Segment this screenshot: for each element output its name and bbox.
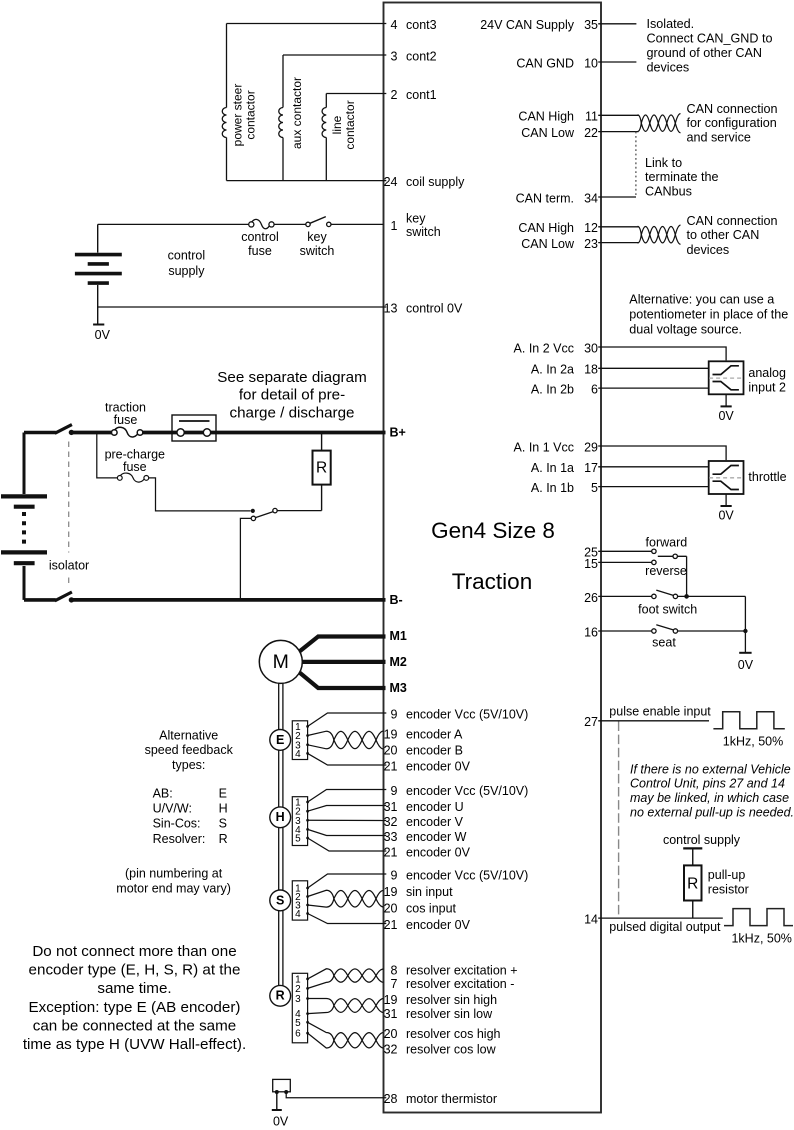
title Gen4 Size 8	[431, 518, 555, 543]
label forward	[646, 535, 688, 549]
svg-text:CAN Low: CAN Low	[521, 237, 575, 251]
svg-text:CAN High: CAN High	[518, 221, 574, 235]
pin 31 label resolver sin low	[384, 1007, 494, 1021]
label B-	[390, 593, 403, 607]
svg-text:resolver excitation -: resolver excitation -	[406, 977, 514, 991]
svg-text:time as type H (UVW Hall-effec: time as type H (UVW Hall-effect).	[23, 1036, 246, 1053]
switch: isolator bottom blade	[24, 592, 74, 603]
wire pin24 coil supply rail	[227, 180, 387, 182]
wire H pin5 to 21	[308, 838, 387, 851]
title Traction	[452, 569, 532, 594]
label reverse	[645, 564, 687, 578]
pin 35 label	[480, 18, 598, 32]
svg-text:charge / discharge: charge / discharge	[230, 404, 355, 421]
svg-text:speed feedback: speed feedback	[145, 743, 234, 757]
svg-text:Resolver:: Resolver:	[153, 832, 206, 846]
svg-text:Sin-Cos:: Sin-Cos:	[153, 817, 201, 831]
switch: key switch	[306, 217, 331, 227]
label pull-up resistor	[708, 868, 749, 897]
pin 19 label sin input	[384, 885, 453, 899]
svg-text:17: 17	[584, 461, 598, 475]
motor M circle	[259, 640, 302, 683]
svg-text:aux contactor: aux contactor	[290, 77, 304, 149]
pin 4 label cont3	[391, 18, 437, 32]
wire pin4 cont3	[227, 23, 387, 25]
svg-text:key: key	[307, 230, 327, 244]
wire pin10 stub	[598, 61, 636, 63]
battery: control supply battery	[75, 224, 122, 324]
svg-text:1kHz, 50%: 1kHz, 50%	[731, 932, 791, 946]
pin 9 label encoder Vcc (5V/10V)	[391, 784, 529, 798]
svg-text:Alternative: you can use a: Alternative: you can use a	[629, 292, 774, 306]
svg-text:cos input: cos input	[406, 901, 457, 915]
svg-text:0V: 0V	[718, 509, 734, 523]
svg-text:B-: B-	[390, 593, 403, 607]
label pre-charge fuse	[105, 448, 165, 474]
svg-text:ground of other CAN: ground of other CAN	[647, 46, 763, 60]
control supply bar	[683, 847, 702, 849]
svg-text:4: 4	[391, 18, 398, 32]
svg-text:Gen4 Size 8: Gen4 Size 8	[431, 518, 555, 543]
svg-text:cont2: cont2	[406, 49, 437, 63]
svg-text:coil supply: coil supply	[406, 175, 465, 189]
pin 22 label	[521, 126, 598, 140]
wire pin3 cont2	[283, 54, 386, 56]
wire pin6	[598, 387, 709, 389]
waveform pulse input	[713, 712, 784, 729]
svg-text:24V CAN Supply: 24V CAN Supply	[480, 18, 575, 32]
svg-text:control supply: control supply	[663, 833, 741, 847]
encoder H circle	[270, 807, 291, 828]
svg-text:control: control	[241, 230, 279, 244]
pin 31 label encoder U	[384, 800, 464, 814]
svg-text:encoder type (E, H, S, R) at t: encoder type (E, H, S, R) at the	[29, 961, 241, 978]
svg-text:resolver sin low: resolver sin low	[406, 1007, 493, 1021]
svg-text:encoder Vcc (5V/10V): encoder Vcc (5V/10V)	[406, 707, 528, 721]
svg-text:14: 14	[584, 913, 598, 927]
svg-text:20: 20	[384, 901, 398, 915]
wire pin16 seat	[598, 630, 652, 632]
svg-text:encoder 0V: encoder 0V	[406, 918, 471, 932]
svg-text:See separate diagram: See separate diagram	[217, 369, 366, 386]
note isolated CAN_GND	[647, 17, 773, 74]
pin 21 label encoder 0V	[384, 918, 471, 932]
wire S pin1 to 9	[308, 874, 387, 888]
svg-text:26: 26	[584, 591, 598, 605]
svg-text:CAN Low: CAN Low	[521, 126, 575, 140]
twisted pair R sin	[308, 999, 384, 1014]
svg-text:15: 15	[584, 557, 598, 571]
svg-text:0V: 0V	[95, 328, 111, 342]
pin 17 label	[531, 461, 598, 475]
svg-text:13: 13	[384, 301, 398, 315]
svg-text:H: H	[219, 802, 228, 816]
pin 21 label encoder 0V	[384, 845, 471, 859]
battery: traction battery	[1, 433, 47, 600]
svg-text:switch: switch	[300, 244, 335, 258]
label M1	[390, 629, 407, 643]
svg-text:Do not connect more than one: Do not connect more than one	[32, 943, 236, 960]
note alternative speed feedback	[145, 728, 234, 772]
svg-text:Exception: type E (AB encoder): Exception: type E (AB encoder)	[29, 999, 241, 1016]
pin 16 label	[584, 625, 598, 639]
svg-text:sin input: sin input	[406, 885, 453, 899]
svg-text:B+: B+	[390, 426, 406, 440]
svg-text:7: 7	[391, 977, 398, 991]
svg-text:R: R	[276, 989, 285, 1003]
wire pin35 stub	[598, 23, 636, 25]
waveform pulsed output	[724, 909, 793, 926]
svg-text:16: 16	[584, 625, 598, 639]
svg-text:throttle: throttle	[748, 470, 786, 484]
svg-text:resolver cos low: resolver cos low	[406, 1042, 497, 1056]
pin 19 label encoder A	[384, 727, 463, 741]
wire pin26 foot switch	[598, 595, 652, 597]
svg-text:4: 4	[295, 909, 301, 920]
svg-text:19: 19	[384, 727, 398, 741]
label pulsed digital output	[609, 920, 721, 934]
svg-text:20: 20	[384, 1027, 398, 1041]
pin 3 label cont2	[391, 49, 437, 63]
note no external VCU italic	[630, 762, 794, 819]
label pulse enable input	[609, 705, 711, 719]
svg-text:terminate the: terminate the	[645, 170, 719, 184]
pot symbol throttle	[709, 461, 744, 494]
contactor coil: aux contactor	[279, 55, 283, 181]
note encoder type table	[153, 787, 228, 846]
svg-text:U/V/W:: U/V/W:	[153, 802, 192, 816]
note do not connect warning	[23, 943, 246, 1053]
pin 32 label resolver cos low	[384, 1042, 497, 1056]
ground 0V analog2	[718, 394, 734, 423]
svg-text:no external pull-up is needed.: no external pull-up is needed.	[630, 806, 794, 820]
svg-text:1kHz, 50%: 1kHz, 50%	[723, 734, 783, 748]
switch: pre-charge switch	[240, 508, 277, 598]
svg-text:11: 11	[585, 110, 598, 124]
svg-text:5: 5	[295, 834, 301, 845]
svg-text:Traction: Traction	[452, 569, 532, 594]
svg-text:line: line	[330, 115, 344, 134]
contactor coil: line contactor	[322, 94, 326, 181]
fuse: pre-charge fuse	[117, 473, 148, 482]
svg-text:motor thermistor: motor thermistor	[406, 1092, 497, 1106]
svg-text:seat: seat	[652, 636, 676, 650]
svg-text:S: S	[219, 817, 227, 831]
pin 29 label	[514, 440, 598, 454]
svg-text:A. In 1a: A. In 1a	[531, 461, 574, 475]
label M2	[390, 655, 407, 669]
switch forward/reverse selector	[652, 549, 687, 595]
svg-text:29: 29	[584, 440, 598, 454]
svg-text:9: 9	[391, 784, 398, 798]
wire pin5	[598, 486, 709, 488]
svg-text:input 2: input 2	[748, 381, 786, 395]
label B+	[390, 426, 406, 440]
pin 9 label encoder Vcc (5V/10V)	[391, 868, 529, 882]
svg-text:33: 33	[384, 830, 398, 844]
pin 19 label resolver sin high	[384, 993, 497, 1007]
label isolator	[49, 559, 89, 573]
svg-text:M1: M1	[390, 629, 407, 643]
svg-text:CAN term.: CAN term.	[516, 191, 574, 205]
svg-text:31: 31	[384, 1007, 398, 1021]
svg-text:S: S	[276, 893, 284, 907]
svg-text:cont3: cont3	[406, 18, 437, 32]
svg-text:encoder Vcc (5V/10V): encoder Vcc (5V/10V)	[406, 868, 528, 882]
svg-text:CAN connection: CAN connection	[687, 102, 778, 116]
svg-text:E: E	[219, 787, 227, 801]
svg-text:and service: and service	[687, 130, 751, 144]
wire pin2 cont1	[326, 93, 386, 95]
svg-text:27: 27	[584, 715, 598, 729]
wire M1 thick	[300, 637, 386, 652]
svg-text:Alternative: Alternative	[159, 728, 218, 742]
encoder S circle	[270, 890, 291, 911]
svg-text:24: 24	[384, 175, 398, 189]
svg-text:key: key	[406, 211, 426, 225]
motor shaft double line	[279, 683, 283, 985]
pin 6 label	[531, 383, 598, 397]
svg-text:pulsed digital output: pulsed digital output	[609, 920, 721, 934]
svg-text:CAN connection: CAN connection	[687, 214, 778, 228]
pin 20 label resolver cos high	[384, 1027, 501, 1041]
wire pin30	[598, 347, 726, 360]
wire S pin4 to 21	[308, 914, 387, 924]
svg-text:Isolated.: Isolated.	[647, 17, 695, 31]
wire pin23 CAN Low 2	[598, 242, 638, 244]
pin 20 label cos input	[384, 901, 457, 915]
resistor R pre-charge	[277, 433, 331, 511]
label control supply	[168, 248, 206, 278]
pin 26 label	[584, 591, 598, 605]
pin 28 label motor thermistor	[384, 1092, 497, 1106]
svg-text:potentiometer in place of the: potentiometer in place of the	[629, 307, 788, 321]
switch seat	[652, 625, 746, 634]
note pin numbering may vary	[116, 867, 231, 896]
wire M3 thick	[300, 673, 386, 688]
svg-text:cont1: cont1	[406, 88, 437, 102]
svg-text:20: 20	[384, 743, 398, 757]
wire pin34 stub	[598, 196, 636, 198]
note CAN connection other	[687, 214, 778, 257]
label aux contactor	[290, 77, 304, 149]
svg-text:foot switch: foot switch	[638, 602, 697, 616]
pin 1 label key switch	[391, 211, 441, 239]
label M3	[390, 681, 407, 695]
svg-text:encoder V: encoder V	[406, 815, 464, 829]
svg-text:E: E	[276, 733, 284, 747]
svg-text:reverse: reverse	[645, 564, 687, 578]
wire pin12 CAN High 2	[598, 226, 638, 228]
svg-text:9: 9	[391, 707, 398, 721]
svg-text:devices: devices	[647, 60, 690, 74]
svg-text:encoder Vcc (5V/10V): encoder Vcc (5V/10V)	[406, 784, 528, 798]
svg-text:CAN GND: CAN GND	[516, 56, 574, 70]
thermistor symbol	[273, 1079, 291, 1094]
svg-text:31: 31	[384, 800, 398, 814]
wire E pin4 to 21	[308, 753, 387, 765]
svg-text:same time.: same time.	[97, 980, 171, 997]
note CAN connection config	[687, 102, 778, 144]
svg-text:forward: forward	[646, 535, 688, 549]
svg-text:3: 3	[391, 49, 398, 63]
label control fuse	[241, 230, 279, 258]
svg-text:switch: switch	[406, 225, 441, 239]
svg-text:analog: analog	[748, 366, 786, 380]
svg-text:Link to: Link to	[645, 156, 682, 170]
ground 0V throttle	[718, 494, 734, 523]
svg-text:30: 30	[584, 341, 598, 355]
svg-text:types:: types:	[172, 758, 205, 772]
wire pin25 forward	[598, 550, 652, 552]
wire pin27 pulse enable	[598, 720, 709, 722]
svg-text:1: 1	[391, 219, 398, 233]
pin 11 label	[518, 110, 598, 124]
wire pin17	[598, 466, 709, 468]
svg-text:may be linked, in which case: may be linked, in which case	[630, 791, 789, 805]
svg-text:contactor: contactor	[244, 90, 258, 139]
connector R	[292, 973, 309, 1043]
svg-text:R: R	[316, 460, 327, 477]
pin 14 label	[584, 913, 598, 927]
svg-text:encoder W: encoder W	[406, 830, 467, 844]
svg-text:AB:: AB:	[153, 787, 173, 801]
label foot switch	[638, 602, 697, 616]
wire pin18	[598, 367, 709, 369]
svg-text:0V: 0V	[273, 1114, 289, 1128]
svg-text:3: 3	[295, 994, 301, 1005]
wire M2 thick	[302, 660, 385, 664]
svg-text:18: 18	[584, 363, 598, 377]
wire B- thick	[71, 598, 385, 602]
svg-text:for detail of pre-: for detail of pre-	[239, 387, 345, 404]
wire pre-charge branch	[97, 433, 251, 511]
pin 13 label control 0V	[384, 301, 463, 315]
connector S	[292, 881, 309, 920]
svg-text:Connect CAN_GND to: Connect CAN_GND to	[647, 32, 773, 46]
svg-text:12: 12	[584, 221, 598, 235]
svg-text:8: 8	[391, 963, 398, 977]
contactor main contacts (line contactor tips)	[172, 415, 216, 441]
svg-text:fuse: fuse	[248, 244, 272, 258]
twisted pair S sin/cos	[308, 890, 384, 907]
svg-text:6: 6	[295, 1029, 301, 1040]
label 1kHz 50% input	[723, 734, 783, 748]
svg-text:pulse enable input: pulse enable input	[609, 705, 711, 719]
pin 18 label	[531, 363, 598, 377]
svg-text:control 0V: control 0V	[406, 301, 463, 315]
svg-text:34: 34	[584, 191, 598, 205]
svg-text:19: 19	[384, 885, 398, 899]
svg-text:resolver excitation +: resolver excitation +	[406, 963, 518, 977]
note pre-charge diagram	[217, 369, 366, 421]
svg-text:M2: M2	[390, 655, 407, 669]
wire pin13 control 0V	[98, 306, 387, 308]
resistor R pull-up	[684, 848, 702, 918]
label traction fuse	[105, 400, 146, 427]
svg-text:22: 22	[584, 126, 598, 140]
ground 0V control supply	[93, 325, 111, 342]
wire B+ thick	[71, 431, 385, 435]
svg-text:21: 21	[384, 845, 398, 859]
label key switch	[300, 230, 335, 258]
wire pin15 reverse	[598, 561, 652, 563]
svg-text:A. In 2a: A. In 2a	[531, 363, 574, 377]
svg-text:fuse: fuse	[114, 413, 138, 427]
svg-text:control: control	[168, 248, 206, 262]
label control supply (pull-up)	[663, 833, 741, 847]
wire pin14 pulsed output	[598, 917, 723, 919]
svg-text:2: 2	[391, 88, 398, 102]
pin 12 label	[518, 221, 598, 235]
label 1kHz 50% output	[731, 932, 791, 946]
svg-text:35: 35	[584, 18, 598, 32]
twisted pair R excitation	[308, 969, 384, 989]
fuse: traction fuse	[112, 427, 143, 437]
svg-text:devices: devices	[687, 243, 730, 257]
note link terminate CANbus	[645, 156, 719, 199]
svg-text:to other CAN: to other CAN	[687, 228, 760, 242]
pin 24 label coil supply	[384, 175, 466, 189]
pin 2 label cont1	[391, 88, 437, 102]
svg-text:encoder U: encoder U	[406, 800, 464, 814]
pin 30 label	[514, 341, 598, 355]
svg-text:resolver sin high: resolver sin high	[406, 993, 497, 1007]
svg-text:If there is no external Vehicl: If there is no external Vehicle	[630, 762, 791, 776]
svg-text:isolator: isolator	[49, 559, 89, 573]
pin 32 label encoder V	[384, 815, 464, 829]
svg-text:19: 19	[384, 993, 398, 1007]
wire H pin3 to 32	[308, 819, 387, 821]
svg-text:M: M	[273, 651, 289, 673]
ground 0V thermistor	[272, 1092, 289, 1128]
twisted pair CAN other	[638, 225, 681, 244]
pin 8 label resolver excitation +	[391, 963, 518, 977]
svg-text:R: R	[219, 832, 228, 846]
wire pin28 motor thermistor	[286, 1092, 386, 1098]
svg-text:6: 6	[591, 383, 598, 397]
svg-text:A. In 2 Vcc: A. In 2 Vcc	[514, 341, 574, 355]
svg-text:(pin numbering at: (pin numbering at	[125, 867, 223, 881]
svg-text:pull-up: pull-up	[708, 868, 746, 882]
pin 7 label resolver excitation -	[391, 977, 515, 991]
pot symbol analog input 2	[709, 361, 744, 394]
svg-text:A. In 1b: A. In 1b	[531, 481, 574, 495]
pin 5 label	[531, 481, 598, 495]
contactor coil: power steer contactor	[222, 24, 226, 181]
svg-text:resolver cos high: resolver cos high	[406, 1027, 501, 1041]
svg-text:5: 5	[591, 481, 598, 495]
wire key switch row pin1 segs	[98, 223, 384, 225]
switch: isolator top blade	[24, 425, 74, 435]
svg-text:power steer: power steer	[231, 84, 245, 147]
svg-text:M3: M3	[390, 681, 407, 695]
twisted pair E A/B	[308, 731, 384, 749]
wire H pin2 to 31	[308, 806, 387, 812]
svg-text:CAN High: CAN High	[518, 110, 574, 124]
svg-text:32: 32	[384, 1042, 398, 1056]
label analog input 2	[748, 366, 786, 395]
note potentiometer alternative	[629, 292, 788, 336]
twisted pair R cos	[308, 1022, 384, 1048]
svg-text:can be connected at the same: can be connected at the same	[33, 1018, 236, 1035]
wire to 0V directions	[743, 596, 747, 652]
connector H	[292, 797, 309, 846]
wire E pin1 to 9	[308, 713, 387, 726]
svg-text:0V: 0V	[718, 409, 734, 423]
svg-text:encoder B: encoder B	[406, 743, 463, 757]
svg-text:28: 28	[384, 1092, 398, 1106]
